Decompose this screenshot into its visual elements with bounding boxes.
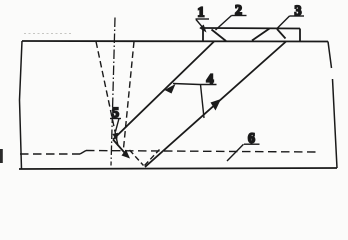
- dashed line 6 right run: [86, 151, 316, 153]
- label 5 leader: [116, 119, 120, 132]
- plate right edge: [328, 42, 337, 169]
- reflected beam arrowhead up-right: [211, 99, 222, 111]
- label 1 arrowhead: [199, 25, 206, 33]
- weld groove left edge (dashed): [96, 42, 119, 149]
- label 2 leader: [216, 16, 232, 31]
- scan tick left margin: [0, 149, 3, 163]
- probe right wedge face: [252, 29, 270, 41]
- label 6 underline: [244, 143, 260, 145]
- plate bottom surface: [19, 168, 337, 169]
- incident beam (left): [113, 42, 214, 140]
- label 5 underline: [110, 118, 121, 120]
- bottom-surface dashed line 6: [20, 153, 80, 155]
- plate left edge: [20, 41, 23, 169]
- dashed line 6 jog: [80, 151, 86, 155]
- probe right piezo plate: [277, 29, 286, 39]
- label 4 underline: [200, 84, 217, 86]
- reflected beam (right): [145, 42, 286, 168]
- probe body right edge: [299, 29, 301, 42]
- label 4 leader to left beam: [173, 84, 200, 85]
- svg-text:4: 4: [207, 73, 214, 88]
- plate top surface: [22, 40, 328, 43]
- root bead dashed V right: [145, 150, 160, 166]
- beam arrowhead down-left: [165, 84, 176, 94]
- svg-text:3: 3: [295, 4, 302, 19]
- weld centerline (dash-dot): [111, 18, 115, 166]
- label 2 underline: [232, 15, 247, 17]
- svg-text:2: 2: [235, 4, 242, 19]
- label 6 leader: [227, 144, 244, 161]
- svg-text:1: 1: [198, 6, 205, 21]
- probe left piezo plate: [212, 30, 227, 42]
- root bead dashed V left: [130, 150, 144, 166]
- label 4 leader to right beam: [201, 85, 205, 119]
- label 3 underline: [290, 15, 305, 17]
- beam root segment: [113, 140, 128, 157]
- weld groove right edge (dashed): [124, 42, 135, 149]
- label 1 underline: [196, 18, 210, 20]
- probe body top edge: [203, 27, 300, 30]
- probe body left edge: [202, 28, 204, 42]
- scan artifact faint dotted line: [24, 33, 72, 35]
- root segment arrowhead: [122, 150, 131, 159]
- label 1 leader: [196, 20, 203, 28]
- label 5 arrowhead: [112, 133, 118, 142]
- label 3 leader: [277, 16, 290, 29]
